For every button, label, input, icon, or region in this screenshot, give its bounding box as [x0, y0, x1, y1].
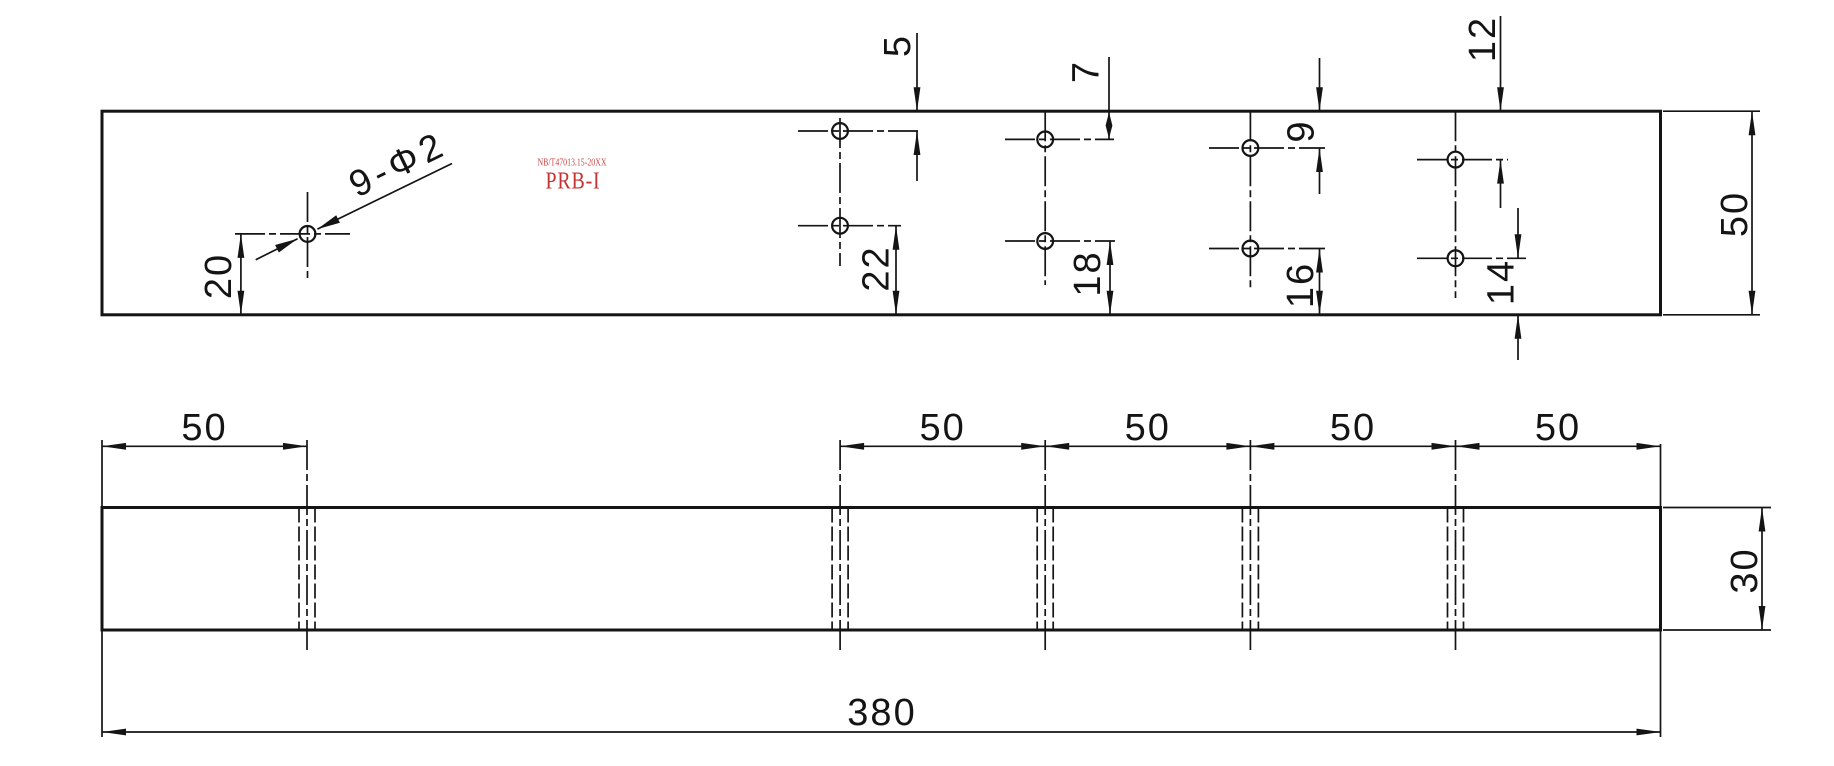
svg-text:50: 50 [1535, 407, 1581, 449]
svg-text:50: 50 [181, 407, 227, 449]
svg-text:20: 20 [198, 253, 240, 299]
svg-text:NB/T47013.15-20XX: NB/T47013.15-20XX [538, 158, 608, 169]
svg-text:380: 380 [847, 692, 916, 734]
svg-text:PRB-I: PRB-I [546, 169, 601, 195]
svg-text:9: 9 [1281, 119, 1323, 142]
svg-text:14: 14 [1481, 259, 1523, 305]
svg-text:50: 50 [1330, 407, 1376, 449]
svg-text:50: 50 [1125, 407, 1171, 449]
svg-text:5: 5 [877, 34, 919, 57]
svg-text:7: 7 [1066, 60, 1108, 83]
svg-text:18: 18 [1067, 250, 1109, 296]
svg-text:16: 16 [1280, 262, 1322, 308]
svg-text:50: 50 [1714, 191, 1756, 237]
svg-text:50: 50 [920, 407, 966, 449]
svg-text:30: 30 [1724, 547, 1766, 593]
svg-text:22: 22 [856, 245, 898, 291]
svg-text:12: 12 [1462, 16, 1504, 62]
